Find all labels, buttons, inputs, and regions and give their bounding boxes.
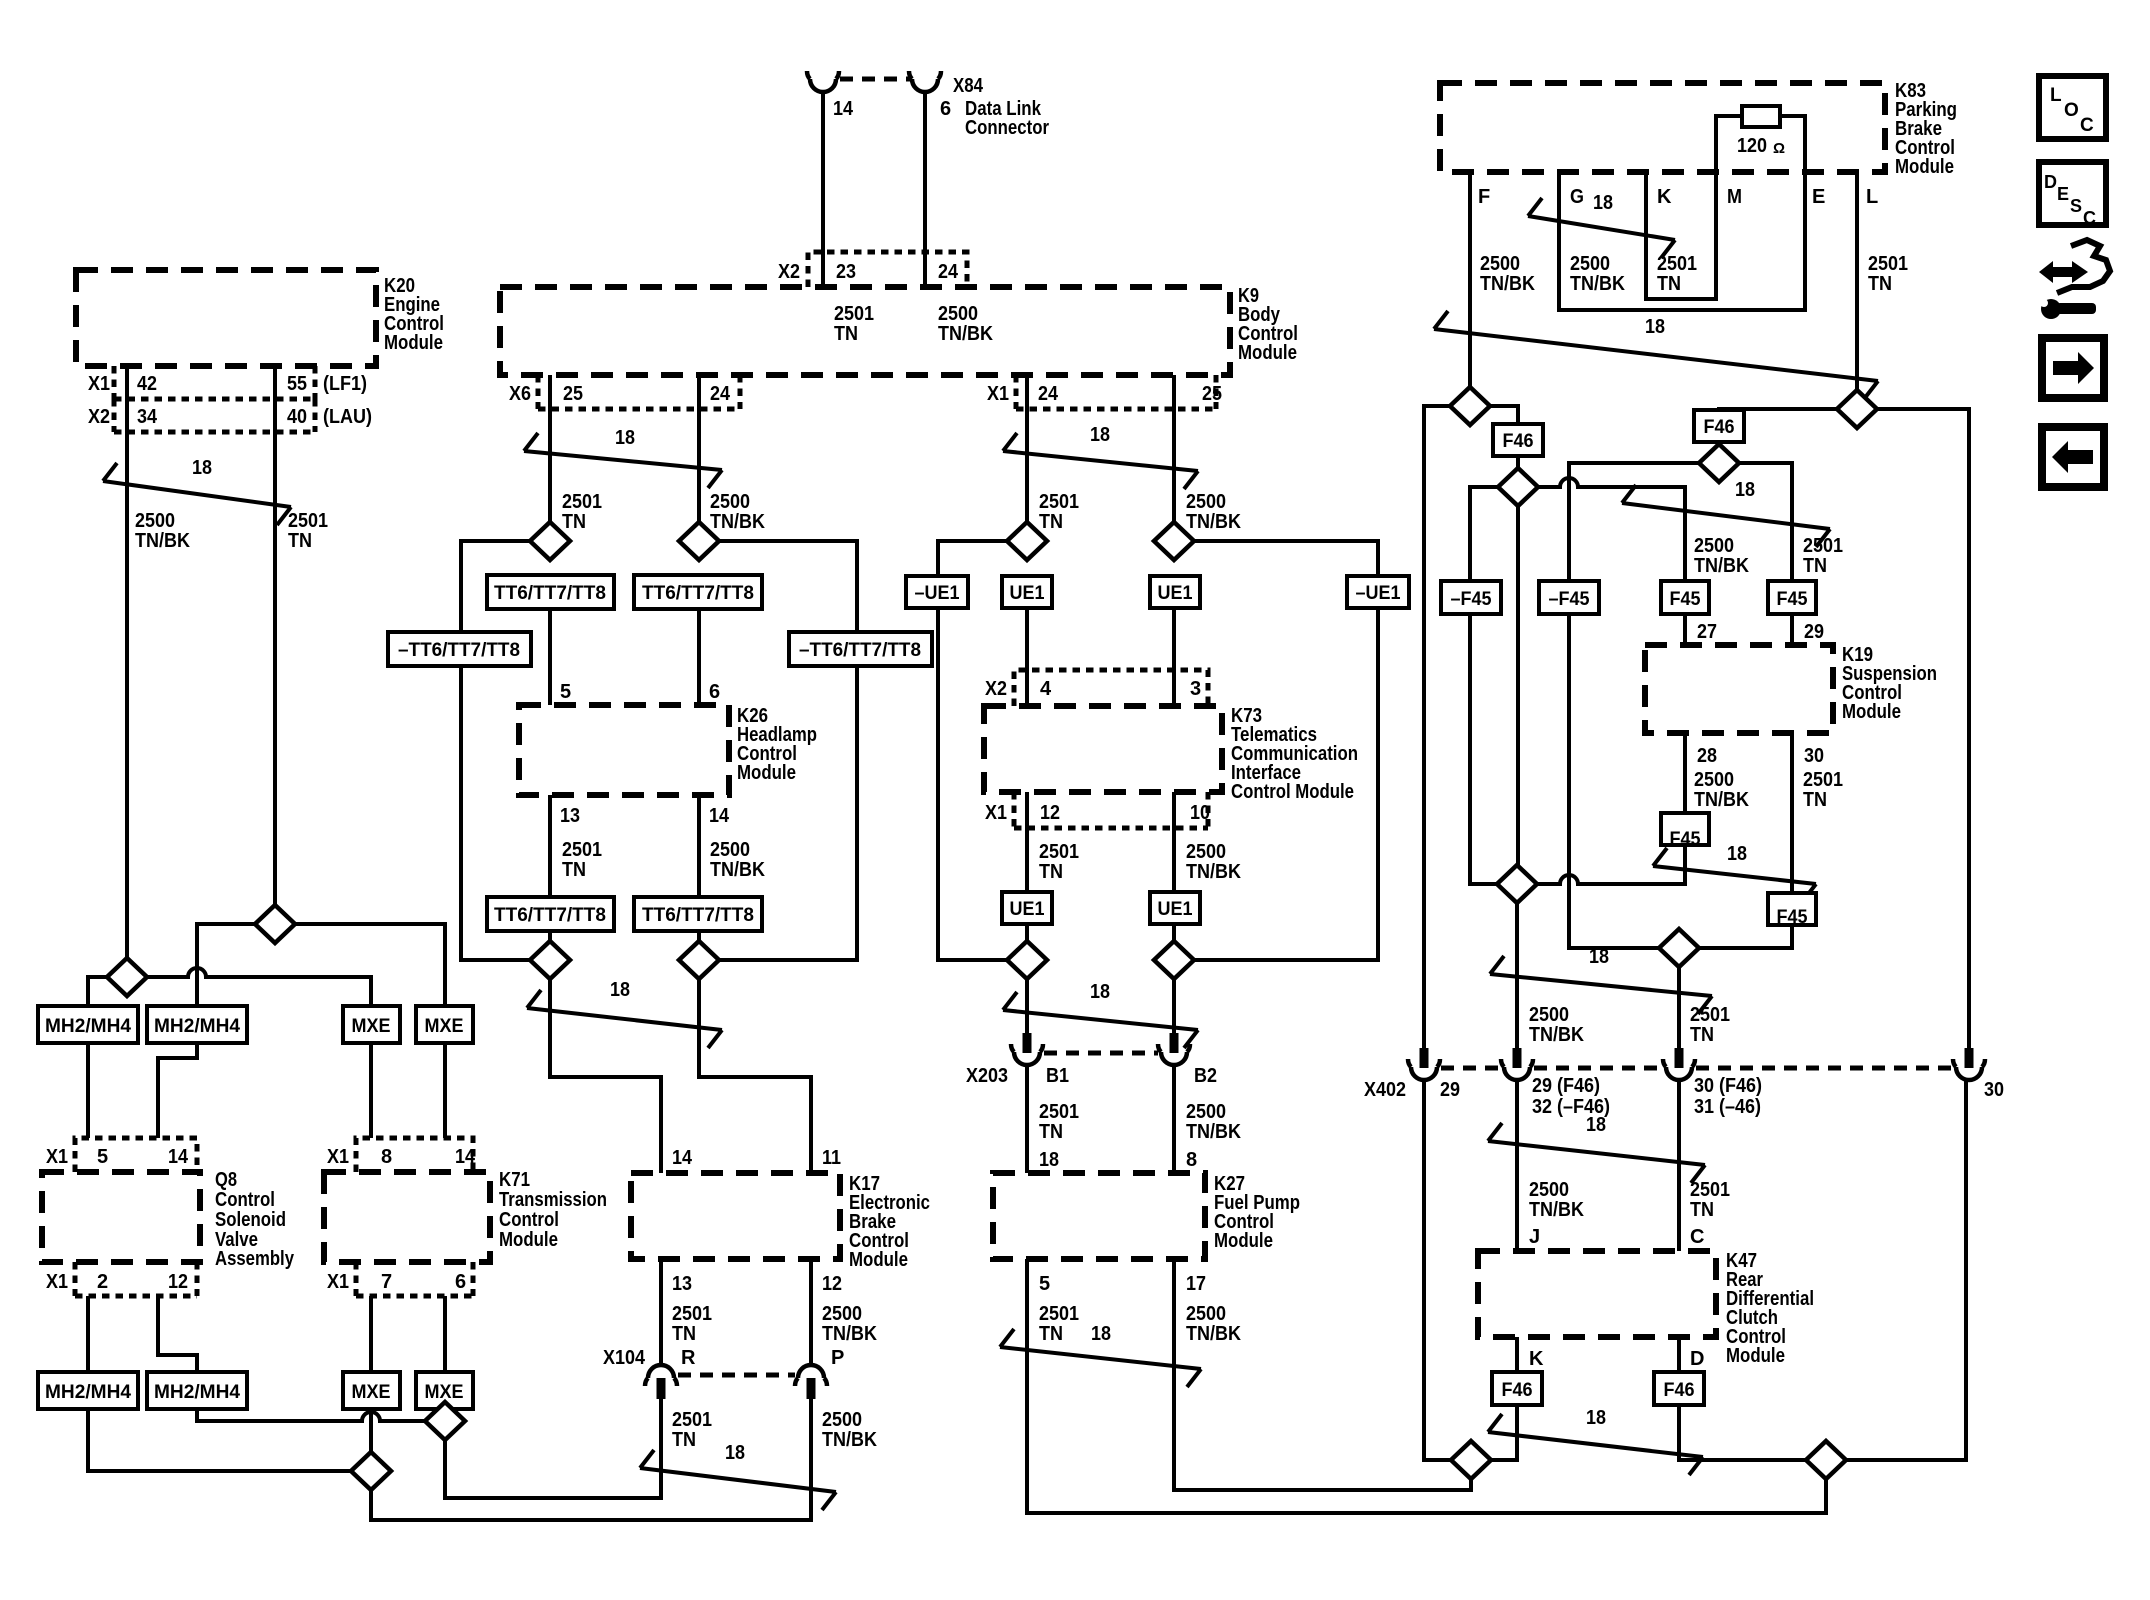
wire -TT6 right down to splice	[719, 666, 857, 960]
connector row K9 X2 pins 23 24	[808, 252, 967, 287]
label 2501 TN	[1039, 1101, 1079, 1143]
wire F45-4 to K19 pin 29	[1790, 614, 1794, 645]
svg-text:12: 12	[822, 1273, 842, 1295]
svg-text:D: D	[2044, 172, 2057, 192]
connector X203 pin B1 bar and cup	[1011, 1033, 1043, 1065]
crossing 18 gauge above X402	[1490, 946, 1712, 1014]
connector F46 box D	[1654, 1372, 1704, 1405]
svg-text:2501: 2501	[1690, 1179, 1730, 1201]
svg-text:X402: X402	[1364, 1079, 1406, 1101]
svg-text:29 (F46): 29 (F46)	[1532, 1075, 1600, 1097]
svg-text:TN: TN	[1690, 1024, 1714, 1046]
wire K83 pin K to resistor via M	[1646, 116, 1742, 299]
connector X104 dashed line	[678, 1373, 795, 1378]
wire K73 X1-12 down	[1025, 792, 1029, 892]
label 2501 TN	[1039, 491, 1079, 533]
label K27 Fuel Pump Control Module	[1214, 1173, 1300, 1252]
wire branch to -TT6 right	[718, 541, 857, 632]
label 2500 TN/BK to K19-27	[1694, 535, 1749, 577]
svg-text:18: 18	[1090, 424, 1110, 446]
crossing 18 gauge K9 X1 wires	[1003, 424, 1198, 489]
wire K17-12 to X104-P	[809, 1259, 813, 1367]
svg-text:18: 18	[1039, 1149, 1059, 1171]
wire TT6-B to K26 pin 6	[697, 609, 701, 705]
svg-text:MH2/MH4: MH2/MH4	[45, 1382, 131, 1403]
svg-text:Module: Module	[737, 762, 796, 784]
connector X104 cup R	[645, 1365, 677, 1399]
wire K47-K to F46 box	[1515, 1337, 1519, 1372]
svg-text:–TT6/TT7/TT8: –TT6/TT7/TT8	[799, 640, 921, 661]
wire F splice left to X402-29	[1424, 406, 1450, 1048]
svg-text:B1: B1	[1046, 1065, 1069, 1087]
label Q8 Control Solenoid Valve Assembly	[215, 1169, 295, 1270]
svg-text:30: 30	[1804, 745, 1824, 767]
svg-text:TT6/TT7/TT8: TT6/TT7/TT8	[494, 905, 606, 926]
wire MXE-4 down to bus and X104-R	[445, 1399, 661, 1498]
splice diamond 2500	[107, 958, 147, 996]
svg-text:F45: F45	[1670, 589, 1701, 610]
splice diamond MXE-3	[351, 1452, 391, 1490]
crossing 18 gauge under X104	[640, 1442, 836, 1510]
wire F46-K to left splice	[1491, 1405, 1517, 1460]
svg-text:2501: 2501	[1690, 1004, 1730, 1026]
connector UE1 box C	[1002, 892, 1052, 924]
module Q8 Control Solenoid Valve Assembly	[42, 1172, 200, 1262]
svg-text:10: 10	[1190, 802, 1210, 824]
svg-text:Module: Module	[1842, 701, 1901, 723]
label 2501 TN to K19-29	[1803, 535, 1843, 577]
svg-text:MXE: MXE	[425, 1016, 464, 1037]
module K17 Electronic Brake Control Module	[631, 1173, 840, 1259]
svg-text:F46: F46	[1502, 1380, 1533, 1401]
wire to Q8 X1-14	[158, 1043, 197, 1138]
wire X402-30 down to K47 right splice	[1846, 1080, 1966, 1460]
svg-text:29: 29	[1440, 1079, 1460, 1101]
splice diamond F46-2	[1699, 444, 1739, 482]
wire splice left to -F45 box 1	[1470, 487, 1498, 581]
svg-text:C: C	[2080, 115, 2094, 136]
connector X84 data link cup 14	[807, 71, 839, 92]
svg-text:TN/BK: TN/BK	[1529, 1024, 1584, 1046]
module K83 Parking Brake Control Module	[1440, 83, 1885, 172]
svg-text:G: G	[1570, 186, 1584, 208]
svg-text:2500: 2500	[710, 491, 750, 513]
icon right arrow box	[2042, 338, 2104, 398]
label K71 Transmission Control Module	[499, 1169, 607, 1251]
svg-text:2500: 2500	[1570, 253, 1610, 275]
svg-text:29: 29	[1804, 621, 1824, 643]
wire L splice left to F46 box 2	[1719, 409, 1837, 412]
module K73 Telematics Communication Interface Control Module	[984, 706, 1222, 792]
connector TT6/TT7/TT8 box A	[487, 575, 614, 609]
wire 2501 TN from K20 X2-40	[273, 366, 277, 924]
svg-text:13: 13	[672, 1273, 692, 1295]
svg-text:8: 8	[1186, 1149, 1197, 1171]
icon LOC box	[2039, 76, 2106, 139]
svg-text:C: C	[1690, 1226, 1704, 1248]
wire splice to X203-B2	[1172, 979, 1176, 1033]
svg-text:TN/BK: TN/BK	[1694, 789, 1749, 811]
wire F46-2 to splice	[1717, 442, 1721, 444]
connector row K9 X1 pins 24 25	[1016, 375, 1216, 409]
svg-text:6: 6	[709, 681, 720, 703]
resistor 120 ohm	[1742, 106, 1780, 127]
svg-text:O: O	[2064, 100, 2079, 121]
wire F45-3 to K19 pin 27	[1683, 614, 1687, 645]
svg-text:TN: TN	[1690, 1199, 1714, 1221]
wire MXE-3 down to bus and X104-P	[371, 1399, 811, 1520]
connector X84 data link cup 6	[909, 71, 941, 92]
wire splice to K17 pin 11	[699, 979, 811, 1173]
svg-text:TN/BK: TN/BK	[1480, 273, 1535, 295]
svg-text:MH2/MH4: MH2/MH4	[154, 1382, 240, 1403]
svg-text:18: 18	[1586, 1407, 1606, 1429]
svg-text:Control: Control	[215, 1189, 275, 1211]
wire K26-13 down	[548, 795, 552, 897]
wire K17-13 to X104-R	[659, 1259, 663, 1367]
svg-text:TN/BK: TN/BK	[938, 323, 993, 345]
wire K19-30 to F45 box 6	[1790, 733, 1794, 893]
svg-text:40: 40	[287, 406, 307, 428]
connector F45 box 4	[1768, 581, 1816, 614]
svg-text:5: 5	[1039, 1273, 1050, 1295]
connector UE1 box A	[1002, 576, 1052, 608]
label K20 Engine Control Module	[384, 275, 444, 354]
icon harness double arrow with wrench	[2039, 240, 2110, 319]
crossing 18 gauge above lower splice	[1653, 843, 1816, 902]
svg-text:E: E	[2057, 184, 2069, 204]
svg-text:F46: F46	[1704, 417, 1735, 438]
wire K19-28 to F45 box 5	[1683, 733, 1687, 813]
svg-text:2500: 2500	[1186, 491, 1226, 513]
svg-text:2500: 2500	[1529, 1004, 1569, 1026]
connector X402 dashed line	[1441, 1066, 1954, 1071]
svg-text:24: 24	[1038, 383, 1059, 405]
crossing 18 gauge G-K wires	[1528, 192, 1675, 258]
svg-text:X1: X1	[987, 383, 1009, 405]
svg-text:K71: K71	[499, 1169, 530, 1191]
svg-text:UE1: UE1	[1158, 899, 1193, 920]
svg-text:TN/BK: TN/BK	[1186, 511, 1241, 533]
crossing 18 gauge under K26	[527, 979, 722, 1048]
svg-text:TN: TN	[1039, 1323, 1063, 1345]
svg-text:Module: Module	[1895, 156, 1954, 178]
svg-text:2500: 2500	[938, 303, 978, 325]
svg-text:18: 18	[1090, 981, 1110, 1003]
svg-text:F45: F45	[1777, 907, 1808, 928]
svg-text:TT6/TT7/TT8: TT6/TT7/TT8	[642, 905, 754, 926]
svg-text:C: C	[2083, 208, 2096, 228]
connector X203 pin B2 bar and cup	[1158, 1033, 1190, 1065]
svg-text:TN: TN	[1039, 1121, 1063, 1143]
svg-text:42: 42	[137, 373, 157, 395]
wire 2500 TN/BK K83-F down	[1468, 172, 1472, 406]
svg-text:–F45: –F45	[1549, 589, 1590, 610]
svg-text:18: 18	[1593, 192, 1613, 214]
svg-text:18: 18	[192, 457, 212, 479]
svg-text:7: 7	[381, 1271, 392, 1293]
label 2501 TN	[288, 510, 328, 552]
svg-text:TN/BK: TN/BK	[1186, 1121, 1241, 1143]
svg-text:2501: 2501	[1868, 253, 1908, 275]
connector row K20 X1 pins 42 55	[114, 366, 315, 399]
connector F45 box 5	[1661, 813, 1709, 850]
connector X104 cup P	[795, 1365, 827, 1399]
svg-text:TN: TN	[1039, 511, 1063, 533]
svg-text:18: 18	[1091, 1323, 1111, 1345]
wire F splice right to F46	[1490, 406, 1518, 424]
splice diamond lower left 2500	[1497, 865, 1537, 903]
svg-text:TN/BK: TN/BK	[135, 530, 190, 552]
svg-text:P: P	[831, 1347, 844, 1369]
wire -UE1 right down to splice	[1194, 608, 1378, 960]
svg-text:TN/BK: TN/BK	[710, 511, 765, 533]
splice diamond 2501 UE1	[1007, 522, 1047, 560]
crossing 18 gauge K20 wires	[103, 457, 291, 525]
splice diamond lower right 2501	[1659, 929, 1699, 967]
svg-text:18: 18	[1727, 843, 1747, 865]
svg-text:2: 2	[97, 1271, 108, 1293]
svg-text:18: 18	[1735, 479, 1755, 501]
svg-text:X2: X2	[88, 406, 110, 428]
svg-text:2500: 2500	[1694, 535, 1734, 557]
wire UE1-C down	[1025, 924, 1029, 979]
splice diamond K47 right	[1806, 1441, 1846, 1479]
wire Q8-2 to MH2/MH4	[86, 1296, 90, 1372]
label 2501 TN	[1039, 1303, 1079, 1345]
svg-text:17: 17	[1186, 1273, 1206, 1295]
svg-text:TN: TN	[1657, 273, 1681, 295]
svg-text:X1: X1	[327, 1271, 349, 1293]
wire K71-7 to MXE	[369, 1296, 373, 1372]
svg-text:TN/BK: TN/BK	[710, 859, 765, 881]
connector UE1 box D	[1150, 892, 1200, 924]
svg-text:TT6/TT7/TT8: TT6/TT7/TT8	[494, 583, 606, 604]
svg-text:14: 14	[709, 805, 730, 827]
svg-text:2500: 2500	[135, 510, 175, 532]
svg-text:18: 18	[1645, 316, 1665, 338]
svg-text:M: M	[1727, 186, 1742, 208]
crossing 18 gauge under K47	[1488, 1407, 1703, 1475]
label 2500 TN/BK	[710, 491, 765, 533]
svg-text:TN: TN	[562, 511, 586, 533]
wire 2500 TN/BK from X84-6 to K9 X2-24	[923, 91, 927, 287]
wire splice left to -F45 box 2	[1569, 463, 1699, 581]
label 2500 TN/BK	[710, 839, 765, 881]
wire branch to -UE1 left	[938, 541, 1007, 576]
connector row K73 X2 pins 4 3	[1014, 670, 1208, 706]
svg-text:18: 18	[610, 979, 630, 1001]
connector MXE box 1	[343, 1006, 400, 1043]
connector row K71 X1 pins 7 6	[356, 1262, 473, 1296]
svg-text:X2: X2	[778, 261, 800, 283]
connector X84 dashed line	[840, 77, 910, 82]
svg-text:TT6/TT7/TT8: TT6/TT7/TT8	[642, 583, 754, 604]
label K9 Body Control Module	[1238, 285, 1298, 364]
svg-text:Module: Module	[849, 1249, 908, 1271]
wire TT6-C down	[548, 931, 552, 979]
svg-text:34: 34	[137, 406, 158, 428]
svg-text:2501: 2501	[1039, 491, 1079, 513]
wire 2500 TN/BK K9 X6-24 down	[697, 375, 701, 541]
module K20 Engine Control Module	[76, 270, 376, 366]
connector UE1 box B	[1150, 576, 1200, 608]
wire UE1-A to K73 X2-4	[1025, 608, 1029, 706]
svg-text:D: D	[1690, 1348, 1704, 1370]
svg-text:–UE1: –UE1	[915, 583, 960, 604]
connector -UE1 box right	[1347, 576, 1409, 608]
svg-text:MH2/MH4: MH2/MH4	[154, 1016, 240, 1037]
connector F46 box 2	[1694, 410, 1744, 442]
wire splice down to X402 29(F46)	[1515, 903, 1519, 1048]
wire branch to -UE1 right	[1194, 541, 1378, 576]
svg-text:2500: 2500	[1186, 1303, 1226, 1325]
connector TT6/TT7/TT8 box C	[487, 897, 614, 931]
label X84 6 Data Link Connector	[940, 75, 1049, 139]
svg-text:55: 55	[287, 373, 307, 395]
svg-text:S: S	[2070, 196, 2082, 216]
svg-text:TN: TN	[834, 323, 858, 345]
label 2501 TN pin L	[1868, 253, 1908, 295]
crossing 18 gauge F-L wires	[1434, 311, 1878, 399]
wire splice to X203-B1	[1025, 979, 1029, 1033]
svg-text:X84: X84	[953, 75, 984, 97]
svg-text:2500: 2500	[1186, 841, 1226, 863]
svg-text:18: 18	[1586, 1114, 1606, 1136]
svg-text:2500: 2500	[822, 1409, 862, 1431]
svg-text:(LF1): (LF1)	[323, 373, 367, 395]
wire X402-29 down to K47 left splice	[1424, 1080, 1451, 1460]
wire K73 X1-10 down	[1172, 792, 1176, 892]
svg-text:6: 6	[940, 98, 951, 120]
splice diamond MXE-4	[425, 1402, 465, 1440]
wire 2501 TN K83-L down	[1855, 172, 1859, 409]
wire 2501 TN K9 X1-24 down	[1025, 375, 1029, 541]
svg-text:23: 23	[836, 261, 856, 283]
label 2501 TN	[834, 303, 874, 345]
wire K71-6 to MXE	[443, 1296, 447, 1372]
module K26 Headlamp Control Module	[519, 705, 729, 795]
crossing 18 gauge above X203	[1003, 981, 1198, 1048]
icon left arrow box	[2042, 427, 2104, 487]
wire bus MH2/MH4-4 to MXE-4 splice with hop	[197, 1409, 425, 1421]
wire 2500 TN/BK from K20 X2-34	[125, 366, 129, 977]
svg-text:TN: TN	[562, 859, 586, 881]
svg-text:2500: 2500	[1529, 1179, 1569, 1201]
wire X402-30F46 to K47 pin C	[1677, 1080, 1681, 1251]
label 2500 TN/BK	[1186, 1303, 1241, 1345]
module K71 Transmission Control Module	[324, 1172, 490, 1262]
label 2501 TN above K47	[1690, 1179, 1730, 1221]
wire 2501 TN K9 X6-25 down	[548, 375, 552, 541]
svg-text:Q8: Q8	[215, 1169, 237, 1191]
svg-text:2501: 2501	[1039, 1101, 1079, 1123]
splice diamond 2501 TT6	[530, 522, 570, 560]
svg-text:TN: TN	[1039, 861, 1063, 883]
connector -TT6/TT7/TT8 box left	[388, 632, 531, 666]
wire 2500 TN/BK K9 X1-25 down	[1172, 375, 1176, 541]
wire K83 pin G to resistor via E	[1559, 116, 1805, 310]
connector X402 pin 29 bar and cup	[1408, 1048, 1440, 1080]
label 120 ohm	[1737, 135, 1785, 157]
svg-text:2500: 2500	[1480, 253, 1520, 275]
wire splice to K17 pin 14	[550, 979, 661, 1173]
svg-text:25: 25	[1202, 383, 1222, 405]
wire -F45-1 down to lower splice	[1470, 614, 1497, 884]
wire F46-D to right splice	[1679, 1405, 1806, 1460]
svg-text:Module: Module	[1214, 1230, 1273, 1252]
svg-text:2501: 2501	[288, 510, 328, 532]
wire UE1-D down	[1172, 924, 1176, 979]
splice diamond 2501	[255, 905, 295, 943]
splice diamond 2500 UE1	[1154, 522, 1194, 560]
svg-text:14: 14	[168, 1146, 189, 1168]
label 2500 TN/BK above X402	[1529, 1004, 1584, 1046]
splice diamond 2500 TT6	[679, 522, 719, 560]
connector X402 pin 30F46 bar and cup	[1663, 1048, 1695, 1080]
connector F45 box 6	[1768, 893, 1816, 928]
svg-text:X1: X1	[46, 1146, 68, 1168]
svg-text:TN/BK: TN/BK	[1529, 1199, 1584, 1221]
wire K27-5 bus to K47 right splice	[1027, 1259, 1826, 1513]
svg-text:–UE1: –UE1	[1356, 583, 1401, 604]
splice diamond F	[1450, 387, 1490, 425]
wire splice branch to MH2/MH4 and MXE row (2500)	[88, 968, 371, 1006]
svg-text:TN: TN	[1803, 555, 1827, 577]
label 2501 TN pin K	[1657, 253, 1697, 295]
svg-text:MH2/MH4: MH2/MH4	[45, 1016, 131, 1037]
svg-text:2501: 2501	[672, 1303, 712, 1325]
splice diamond F46-1	[1498, 468, 1538, 506]
svg-text:2500: 2500	[1694, 769, 1734, 791]
svg-text:13: 13	[560, 805, 580, 827]
wire branch to -TT6 left	[461, 541, 531, 632]
label K17 Electronic Brake Control Module	[849, 1173, 930, 1271]
wire Q8-12 to MH2/MH4	[158, 1296, 197, 1372]
label 2500 TN/BK	[135, 510, 190, 552]
connector MXE box 4	[416, 1372, 473, 1409]
splice diamond lower 2501 UE1	[1007, 941, 1047, 979]
svg-text:6: 6	[455, 1271, 466, 1293]
module K47 Rear Differential Clutch Control Module	[1478, 1251, 1716, 1337]
svg-text:F45: F45	[1777, 589, 1808, 610]
label 2501 TN	[1039, 841, 1079, 883]
connector MH2/MH4 box 4	[147, 1372, 247, 1409]
label 2500 TN/BK	[1186, 841, 1241, 883]
wire to K71 X1-8	[369, 1043, 373, 1138]
svg-text:X1: X1	[46, 1271, 68, 1293]
svg-text:R: R	[681, 1347, 696, 1369]
svg-text:18: 18	[1589, 946, 1609, 968]
svg-text:12: 12	[1040, 802, 1060, 824]
svg-text:K: K	[1657, 186, 1672, 208]
svg-text:12: 12	[168, 1271, 188, 1293]
connector F45 box 3	[1661, 581, 1709, 614]
label K47 Rear Differential Clutch Control Module	[1726, 1250, 1814, 1367]
wire TT6-A to K26 pin 5	[548, 609, 552, 705]
label 2501 TN above X402	[1690, 1004, 1730, 1046]
svg-text:J: J	[1529, 1226, 1540, 1248]
svg-text:30 (F46): 30 (F46)	[1694, 1075, 1762, 1097]
wire F45-5 down to lower splice with hop	[1537, 845, 1685, 884]
connector -UE1 box left	[906, 576, 968, 608]
wire K26-14 down	[697, 795, 701, 897]
crossing 18 gauge under K27	[1000, 1323, 1201, 1387]
wire X402-29F46 to K47 pin J	[1515, 1080, 1519, 1251]
svg-text:Solenoid: Solenoid	[215, 1209, 286, 1231]
svg-text:Control Module: Control Module	[1231, 781, 1354, 803]
svg-text:F46: F46	[1664, 1380, 1695, 1401]
